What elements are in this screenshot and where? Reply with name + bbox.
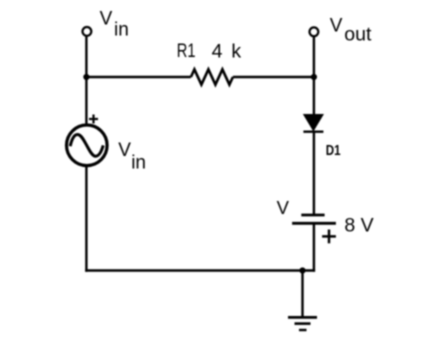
wire terminal Vin to node A: [85, 36, 87, 77]
svg-text:8 V: 8 V: [344, 215, 373, 237]
wire resistor R1 right lead to node B: [233, 76, 314, 78]
node C (ground junction dot): [299, 267, 305, 273]
label Vin (source): [118, 140, 146, 173]
ground symbol: [288, 317, 317, 330]
wire node A to resistor R1 left lead: [86, 76, 190, 78]
svg-text:out: out: [344, 24, 372, 46]
battery polarity +: [322, 230, 336, 244]
AC voltage source V_in (circle): [67, 125, 108, 166]
svg-text:in: in: [131, 152, 146, 173]
wire node B to diode D1 anode: [313, 77, 315, 115]
wire node C to ground: [301, 271, 303, 318]
node A (junction dot): [83, 74, 89, 80]
AC source sine wave: [70, 135, 103, 157]
resistor R1 zigzag: [191, 69, 233, 84]
svg-text:V: V: [330, 16, 343, 37]
svg-text:V: V: [118, 140, 131, 161]
node B (junction dot): [311, 74, 317, 80]
diode D1 (triangle + cathode bar): [303, 115, 323, 132]
svg-text:R1: R1: [177, 40, 196, 62]
terminal Vout (open circle): [310, 27, 319, 36]
battery V (plates): [292, 215, 336, 223]
wire node A down to AC source top: [85, 77, 87, 125]
svg-text:V: V: [277, 197, 290, 218]
svg-text:k: k: [231, 40, 241, 62]
wire AC source bottom to bottom-left corner: [85, 166, 87, 272]
bottom wire (left corner to battery branch): [85, 269, 315, 271]
svg-text:4: 4: [212, 40, 223, 62]
wire terminal Vout to node B: [313, 37, 315, 77]
label Vout (output terminal): [330, 16, 372, 46]
svg-text:in: in: [114, 20, 129, 41]
svg-text:D1: D1: [326, 143, 341, 159]
wire battery V to bottom wire: [313, 223, 315, 271]
terminal Vin (open circle): [83, 27, 92, 36]
wire diode D1 cathode to battery V: [313, 132, 315, 215]
AC source polarity +: [89, 115, 98, 124]
label Vin (input terminal): [100, 9, 129, 41]
svg-text:V: V: [100, 9, 113, 30]
